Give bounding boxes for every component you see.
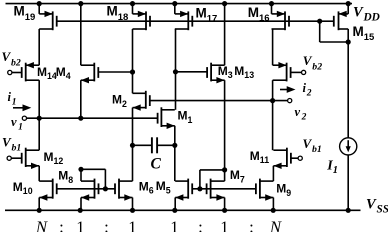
wire M19 source <box>38 4 40 14</box>
transistor M16 <box>272 11 290 31</box>
svg-text:1: 1 <box>220 217 228 232</box>
junction M4 gate node <box>130 69 135 74</box>
junction left gate bus <box>103 186 108 191</box>
wire M1 source down <box>174 126 176 181</box>
wire M19 drain to M14 source <box>38 29 40 65</box>
svg-text:2: 2 <box>306 89 312 99</box>
svg-text:1: 1 <box>128 217 136 232</box>
wire M16 drain to M13 source <box>272 29 274 65</box>
junction on VSS rail at M7 source <box>222 208 227 213</box>
svg-text:V: V <box>353 5 364 21</box>
svg-text:M: M <box>14 4 25 19</box>
power rail VSS <box>5 209 361 211</box>
wire M16 source <box>271 4 273 14</box>
junction M3 gate node <box>173 69 178 74</box>
svg-text:1: 1 <box>76 217 84 232</box>
label M7 <box>230 168 245 184</box>
wire M11 gate <box>290 157 298 159</box>
wire left mirror gate bus <box>57 188 115 190</box>
transistor M7 <box>207 179 225 201</box>
label M16 <box>248 5 270 24</box>
label Vb2 left <box>2 49 21 68</box>
wire M15 source <box>347 4 349 14</box>
wire M2 source down <box>132 108 134 182</box>
wire M17 source <box>174 4 176 14</box>
transistor M4 <box>81 63 99 84</box>
wire M8 drain jog <box>80 169 82 181</box>
svg-text:12: 12 <box>54 156 64 166</box>
terminal Vb2 left <box>8 70 12 74</box>
svg-text:M: M <box>276 182 286 196</box>
wire M15 gate stub <box>320 20 334 22</box>
wire M3 gate <box>176 71 208 73</box>
svg-text:M: M <box>107 4 118 19</box>
svg-text:M: M <box>112 92 122 106</box>
svg-text:v: v <box>11 115 17 129</box>
svg-text:b2: b2 <box>312 62 322 73</box>
svg-text:DD: DD <box>363 12 380 24</box>
junction M8 drain <box>78 167 83 172</box>
wire M13 gate <box>291 71 302 73</box>
transistor M5 <box>175 179 192 201</box>
svg-text:M: M <box>234 64 244 78</box>
transistor M19 <box>39 11 57 31</box>
label M1 <box>178 109 193 125</box>
svg-text::: : <box>249 217 254 232</box>
label M19 <box>14 4 36 23</box>
svg-text:b2: b2 <box>11 57 21 68</box>
wire M14 drain to v1 <box>38 80 40 118</box>
wire right mirror gate bus <box>192 188 256 190</box>
junction on VDD rail at M17 source <box>172 1 177 6</box>
label M8 <box>58 169 73 185</box>
wire M18 drain to M2 drain <box>132 29 134 93</box>
svg-text:16: 16 <box>259 13 270 24</box>
junction on VDD rail at M16 source <box>269 1 274 6</box>
current arrow i1 <box>13 104 31 111</box>
wire M17 drain to M1 drain <box>175 29 177 110</box>
wire M7 drain jog <box>224 170 226 181</box>
svg-text:5: 5 <box>166 185 171 195</box>
junction on VDD rail at M4 drain <box>78 1 83 6</box>
svg-text:1: 1 <box>170 217 178 232</box>
power rail VDD <box>6 3 353 5</box>
junction C left <box>130 143 135 148</box>
svg-text:3: 3 <box>228 70 233 80</box>
wire M8 source <box>80 198 82 211</box>
svg-text:9: 9 <box>286 188 291 198</box>
svg-text:M: M <box>13 180 23 194</box>
wire M4 source to v1 <box>80 80 82 118</box>
svg-text:C: C <box>151 156 162 173</box>
svg-text:17: 17 <box>207 14 218 25</box>
svg-text:M: M <box>58 169 68 183</box>
transistor M10 <box>39 179 57 201</box>
wire M9 source <box>272 198 274 211</box>
svg-text:7: 7 <box>240 174 245 184</box>
junction v1-M4 <box>78 116 83 121</box>
terminal Vb1 right <box>298 156 302 160</box>
transistor M6 <box>115 179 133 201</box>
svg-text:b1: b1 <box>12 143 22 154</box>
svg-text:SS: SS <box>377 203 388 215</box>
junction on VSS rail at I1 <box>346 208 351 213</box>
svg-text:4: 4 <box>66 71 71 81</box>
label M13 <box>234 64 254 80</box>
svg-text:V: V <box>303 136 313 151</box>
transistor M12 <box>22 148 40 169</box>
label M15 <box>353 24 375 43</box>
terminal Vb1 left <box>7 156 11 160</box>
wire M4 gate <box>98 71 132 73</box>
svg-text:M: M <box>56 65 66 79</box>
svg-text:V: V <box>2 49 12 64</box>
label M18 <box>107 4 129 23</box>
junction on VDD rail at M19 source <box>37 1 42 6</box>
svg-text:M: M <box>248 5 259 20</box>
svg-text:2: 2 <box>122 99 127 109</box>
terminal Vb2 right <box>302 70 306 74</box>
junction on VDD rail at M15 source <box>346 1 351 6</box>
wire M12 source to M10 drain <box>38 166 40 181</box>
label Vb1 left <box>2 134 21 153</box>
current source I1 <box>340 42 357 210</box>
svg-text:N: N <box>269 217 282 232</box>
svg-text:M: M <box>353 24 364 39</box>
svg-text:M: M <box>230 168 240 182</box>
transistor M3 <box>207 63 225 84</box>
svg-text:V: V <box>2 134 12 149</box>
transistor M2 <box>133 91 150 111</box>
svg-text:M: M <box>156 179 166 193</box>
label M12 <box>44 150 64 166</box>
svg-text::: : <box>59 217 64 232</box>
wire v1 line <box>27 117 158 119</box>
junction right gate bus <box>197 186 202 191</box>
svg-text:M: M <box>218 64 228 78</box>
svg-text:15: 15 <box>364 32 375 43</box>
junction on VSS rail at M9 source <box>271 208 276 213</box>
wire M5 source <box>174 198 176 211</box>
junction v2 node <box>270 98 275 103</box>
label M2 <box>112 92 127 108</box>
svg-text:M: M <box>250 149 260 163</box>
label M14 <box>37 65 57 81</box>
junction on VDD rail at M3 drain <box>222 1 227 6</box>
node v1 terminal <box>22 116 26 120</box>
svg-text:N: N <box>35 217 48 232</box>
capacitor C <box>133 137 175 153</box>
wire M15 diode link <box>320 21 349 42</box>
transistor M15 <box>334 11 348 31</box>
label v2 <box>295 105 307 123</box>
junction v1-M14 <box>37 116 42 121</box>
svg-text:8: 8 <box>68 175 73 185</box>
wire M13 drain to v2 <box>272 80 274 100</box>
svg-text:10: 10 <box>23 186 33 196</box>
label VSS <box>366 196 388 215</box>
wire v2 to M11 drain <box>272 101 274 151</box>
wire M3 source down <box>224 80 226 170</box>
svg-text:V: V <box>366 196 377 212</box>
wire M7 source <box>224 198 226 211</box>
svg-text:11: 11 <box>260 155 269 165</box>
junction on VSS rail at M6 source <box>130 208 135 213</box>
transistor M18 <box>133 11 151 31</box>
transistor M14 <box>22 62 40 81</box>
svg-text:1: 1 <box>18 123 23 133</box>
wire M10 source <box>38 198 40 211</box>
label M11 <box>250 149 269 165</box>
label VDD <box>353 5 380 24</box>
label C <box>151 156 162 173</box>
label Vb1 right <box>303 136 322 155</box>
svg-text:2: 2 <box>301 113 307 123</box>
transistor M11 <box>273 148 291 169</box>
label M4 <box>56 65 71 81</box>
ratio label N:1:1 1:1:N <box>35 217 282 236</box>
label M5 <box>156 179 171 195</box>
svg-text:1: 1 <box>188 115 193 125</box>
svg-text:M: M <box>196 5 207 20</box>
label I1 <box>326 158 338 176</box>
junction C right <box>172 143 177 148</box>
junction M15 gate <box>317 19 322 24</box>
svg-text::: : <box>104 217 109 232</box>
junction M7 drain <box>222 167 227 172</box>
svg-text:M: M <box>178 109 188 123</box>
svg-text:V: V <box>303 53 313 68</box>
label i2 <box>303 81 312 99</box>
label M9 <box>276 182 291 198</box>
label v1 <box>11 115 23 133</box>
wire M7 diode link <box>200 170 225 189</box>
wire Vb1 to M12 gate <box>11 157 21 159</box>
svg-text:13: 13 <box>244 70 254 80</box>
label i1 <box>8 90 17 108</box>
junction on VDD rail at M18 source <box>130 1 135 6</box>
wire M2 gate to v2 line <box>150 100 288 102</box>
svg-text:6: 6 <box>149 186 154 196</box>
label Vb2 right <box>303 53 322 72</box>
wire VDD to M3 drain <box>224 4 226 66</box>
junction on VSS rail at M5 source <box>172 208 177 213</box>
wire v1 to M12 drain <box>38 118 40 150</box>
svg-text:M: M <box>139 179 149 193</box>
svg-text:b1: b1 <box>312 144 322 155</box>
svg-text::: : <box>198 217 203 232</box>
junction on VSS rail at M10 source <box>37 208 42 213</box>
transistor M17 <box>175 11 193 31</box>
wire M15 drain to I1 <box>347 29 349 42</box>
transistor M1 <box>158 107 175 129</box>
wire M6 source <box>132 198 134 211</box>
svg-text:M: M <box>44 150 54 164</box>
transistor M9 <box>256 179 274 201</box>
svg-text:v: v <box>295 105 301 119</box>
wire M18 source <box>132 4 134 14</box>
node v2 terminal <box>288 99 292 103</box>
label M10 <box>13 180 33 196</box>
wire M11 source to M9 drain <box>272 166 274 181</box>
wire M8 diode link <box>81 169 105 189</box>
transistor M8 <box>81 179 99 201</box>
wire Vb2 to M14 gate <box>12 72 22 74</box>
label M17 <box>196 5 218 24</box>
svg-text:1: 1 <box>12 97 17 107</box>
wire VDD to M4 drain <box>80 4 82 66</box>
wire top gate bus <box>57 20 320 22</box>
current arrow i2 <box>280 86 296 93</box>
transistor M13 <box>273 62 291 81</box>
label M3 <box>218 64 233 80</box>
svg-text:M: M <box>37 65 47 79</box>
svg-text:1: 1 <box>333 165 338 176</box>
junction on VSS rail at M8 source <box>78 208 83 213</box>
label M6 <box>139 179 154 195</box>
junction M15 drain <box>346 39 351 44</box>
svg-text:19: 19 <box>25 12 36 23</box>
